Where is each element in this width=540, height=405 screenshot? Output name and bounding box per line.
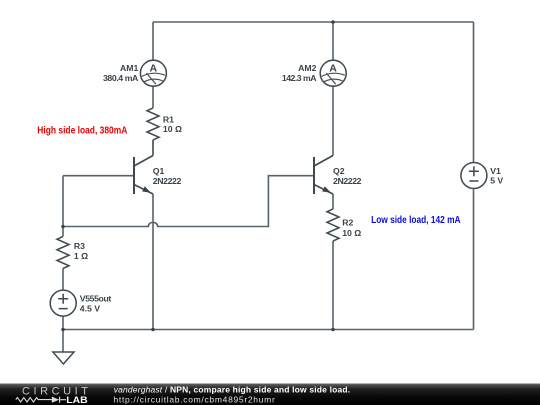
svg-text:2N2222: 2N2222 bbox=[333, 176, 362, 186]
svg-text:High side load, 380mA: High side load, 380mA bbox=[37, 125, 127, 136]
svg-text:5 V: 5 V bbox=[490, 175, 503, 185]
svg-text:http://circuitlab.com/cbm4895r: http://circuitlab.com/cbm4895r2humr bbox=[114, 395, 276, 405]
svg-text:V555out: V555out bbox=[80, 294, 112, 304]
svg-text:380.4 mA: 380.4 mA bbox=[103, 73, 139, 83]
svg-text:A: A bbox=[150, 62, 158, 74]
svg-text:vanderghast / NPN, compare hig: vanderghast / NPN, compare high side and… bbox=[114, 384, 351, 394]
svg-text:Low side load, 142 mA: Low side load, 142 mA bbox=[371, 215, 461, 226]
svg-text:10 Ω: 10 Ω bbox=[163, 124, 182, 134]
svg-text:2N2222: 2N2222 bbox=[153, 176, 182, 186]
svg-text:Q1: Q1 bbox=[153, 166, 165, 176]
svg-text:4.5 V: 4.5 V bbox=[80, 304, 100, 314]
svg-text:R2: R2 bbox=[342, 218, 353, 228]
svg-text:142.3 mA: 142.3 mA bbox=[282, 73, 317, 83]
svg-text:1 Ω: 1 Ω bbox=[74, 251, 88, 261]
svg-text:AM2: AM2 bbox=[298, 63, 317, 73]
svg-text:AM1: AM1 bbox=[120, 63, 139, 73]
svg-text:Q2: Q2 bbox=[333, 166, 345, 176]
svg-text:R3: R3 bbox=[74, 241, 85, 251]
svg-text:R1: R1 bbox=[163, 115, 174, 125]
svg-text:A: A bbox=[329, 62, 337, 74]
svg-text:LAB: LAB bbox=[66, 395, 88, 405]
svg-text:10 Ω: 10 Ω bbox=[342, 228, 361, 238]
